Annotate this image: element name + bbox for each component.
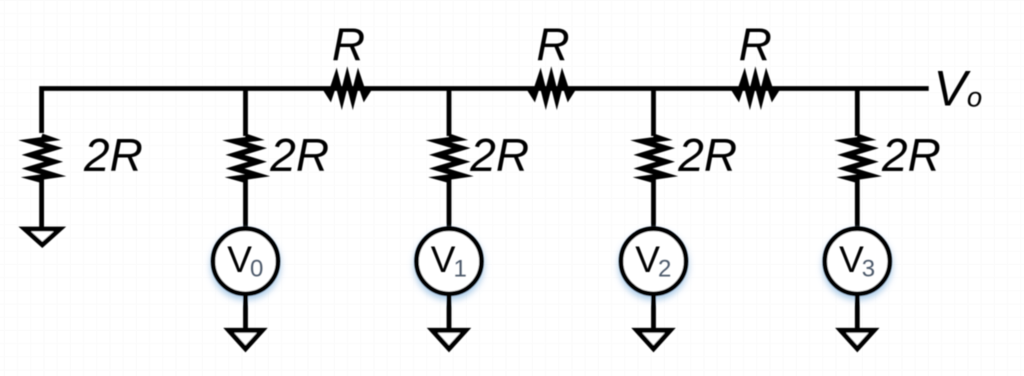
source V3 circle bbox=[825, 229, 890, 294]
svg-text:2R: 2R bbox=[269, 129, 329, 181]
resistor 2R branch 4 bbox=[643, 136, 666, 180]
resistor 2R branch 3 bbox=[439, 136, 462, 180]
wire branch 1 to ground bbox=[39, 179, 44, 231]
wire branch 5 to source V3 bbox=[855, 179, 860, 230]
wire branch 4 to source V2 bbox=[651, 179, 656, 230]
wire V2 to ground bbox=[651, 293, 656, 332]
ground branch 1 bbox=[25, 229, 60, 245]
svg-text:R: R bbox=[739, 19, 772, 71]
wire branch 2 to source V0 bbox=[243, 179, 248, 230]
svg-text:R: R bbox=[536, 19, 569, 71]
wire branch 4 drop bbox=[651, 87, 656, 137]
svg-text:2R: 2R bbox=[469, 129, 529, 181]
svg-text:2R: 2R bbox=[83, 129, 143, 181]
resistor R3 (series) bbox=[733, 77, 777, 99]
wire V3 to ground bbox=[855, 293, 860, 332]
resistor 2R branch 2 bbox=[235, 136, 258, 180]
wire top rail with left corner down to branch 1 bbox=[42, 89, 929, 134]
ground branch 3 bbox=[432, 330, 466, 349]
wire branch 3 drop bbox=[447, 87, 452, 137]
ground branch 4 bbox=[637, 330, 671, 349]
wire V0 to ground bbox=[243, 293, 248, 332]
svg-text:2R: 2R bbox=[677, 129, 737, 181]
wire branch 3 to source V1 bbox=[447, 179, 452, 230]
ground branch 5 bbox=[841, 330, 875, 349]
resistor R1 (series) bbox=[325, 77, 369, 99]
wire branch 5 drop bbox=[855, 87, 860, 137]
ground branch 2 bbox=[229, 330, 263, 349]
resistor R2 (series) bbox=[529, 77, 573, 99]
source V1 circle bbox=[416, 229, 481, 294]
svg-text:2R: 2R bbox=[881, 129, 941, 181]
svg-text:R: R bbox=[332, 19, 365, 71]
source V0 circle bbox=[213, 229, 278, 294]
wire branch 2 drop bbox=[243, 87, 248, 137]
source V2 circle bbox=[621, 229, 686, 294]
wire V1 to ground bbox=[447, 293, 452, 332]
resistor 2R branch 1 bbox=[31, 136, 53, 180]
resistor 2R branch 5 bbox=[847, 136, 870, 180]
